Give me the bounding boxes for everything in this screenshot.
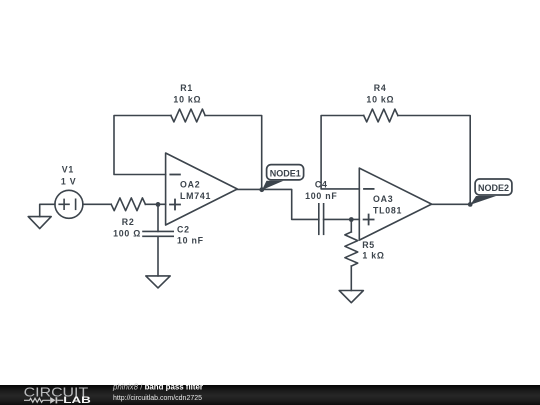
wire junction to C2: [157, 204, 159, 231]
label R1 10 kΩ: [173, 83, 201, 105]
node flag NODE2: [470, 179, 512, 205]
wire junction to R5: [350, 220, 352, 232]
label C4 100 nF: [305, 179, 337, 201]
node junction (R2/C2/+input): [156, 202, 161, 207]
resistor R4: [364, 109, 398, 122]
ground (V1): [28, 204, 55, 228]
resistor R5: [345, 232, 358, 266]
capacitor C4: [319, 204, 324, 235]
node junction (C4/R5/+input): [349, 217, 354, 222]
label C2 10 nF: [177, 224, 204, 245]
label V1 1 V: [61, 165, 76, 187]
label R5 1 kΩ: [362, 240, 384, 261]
wire OA2 output to C4: [237, 189, 318, 219]
node flag NODE1: [262, 165, 304, 190]
wire C4 to op-amp 2: [324, 218, 360, 220]
op-amp OA2: [166, 153, 238, 225]
svg-text:LAB: LAB: [63, 395, 91, 405]
ground (C2): [146, 276, 170, 288]
op-amp OA3: [359, 168, 431, 240]
svg-text:phinix8 / band pass filter: phinix8 / band pass filter: [112, 382, 203, 391]
wire OA3 output: [432, 203, 471, 205]
node NODE1 junction: [259, 187, 264, 192]
capacitor C2: [143, 231, 173, 236]
svg-text:http://circuitlab.com/cdn2725: http://circuitlab.com/cdn2725: [113, 393, 202, 402]
resistor R2: [111, 198, 145, 211]
wire R5 to ground: [350, 266, 352, 290]
wire C2 to ground: [157, 236, 159, 276]
label OA2 LM741: [180, 180, 211, 201]
footer bar: [0, 385, 540, 405]
wire V1 to R2: [83, 203, 111, 205]
wire feedback loop 2 (minus input to R4): [321, 116, 364, 189]
resistor R1: [171, 109, 205, 122]
wire feedback loop 1 (minus input to R1): [114, 116, 171, 175]
wire R1 to output node: [205, 116, 262, 190]
label R2 100 Ω: [113, 217, 141, 239]
label OA3 TL081: [373, 194, 402, 216]
voltage source V1: [55, 190, 83, 218]
label R4 10 kΩ: [366, 83, 394, 105]
CircuitLab logo: [24, 382, 203, 405]
wire R4 to output node 2: [398, 116, 470, 205]
ground (R5): [339, 291, 363, 303]
node NODE2 junction: [468, 202, 473, 207]
wire R2 to op-amp: [145, 203, 165, 205]
